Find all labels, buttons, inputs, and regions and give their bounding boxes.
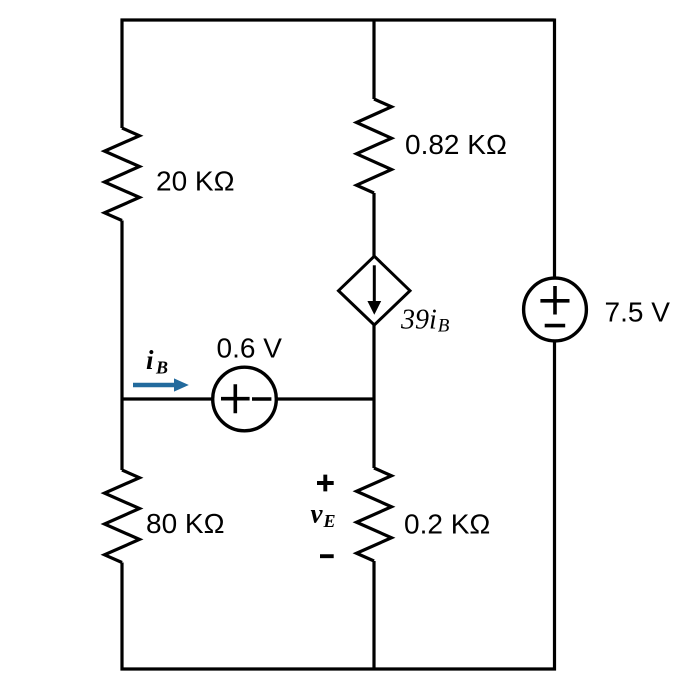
resistor 0.82 KΩ xyxy=(357,99,392,193)
voltage source 0.6 V xyxy=(213,367,277,431)
wire left rail upper xyxy=(120,19,123,129)
resistor 0.2 KΩ xyxy=(357,468,392,561)
wire top rail xyxy=(121,18,555,21)
svg-text:20 KΩ: 20 KΩ xyxy=(156,166,235,197)
polarity minus vE xyxy=(320,554,334,558)
wire right rail upper xyxy=(553,19,556,279)
svg-text:0.2 KΩ: 0.2 KΩ xyxy=(404,509,490,540)
wire left rail middle xyxy=(120,221,123,400)
resistor 20 KΩ xyxy=(105,128,140,221)
dependent current source 39iB diamond xyxy=(339,256,411,325)
wire left rail bottom xyxy=(120,563,123,671)
polarity plus vE xyxy=(317,475,334,492)
current arrow iB xyxy=(133,378,189,391)
svg-text:7.5 V: 7.5 V xyxy=(605,297,671,328)
dependent source arrow xyxy=(367,265,381,315)
voltage source 7.5 V xyxy=(524,278,587,341)
wire bottom rail xyxy=(121,667,557,670)
svg-text:80 KΩ: 80 KΩ xyxy=(146,508,225,539)
wire center horizontal left xyxy=(122,397,213,400)
svg-text:0.82 KΩ: 0.82 KΩ xyxy=(405,129,507,160)
wire middle rail upper xyxy=(372,193,375,257)
svg-text:0.6 V: 0.6 V xyxy=(217,333,283,364)
wire middle rail mid xyxy=(372,325,375,469)
wire center horizontal right xyxy=(277,397,375,400)
wire middle rail top xyxy=(372,19,375,100)
wire left rail lower xyxy=(120,399,123,470)
wire right rail lower xyxy=(553,341,556,671)
resistor 80 KΩ xyxy=(105,470,140,563)
wire middle rail bottom xyxy=(372,561,375,671)
